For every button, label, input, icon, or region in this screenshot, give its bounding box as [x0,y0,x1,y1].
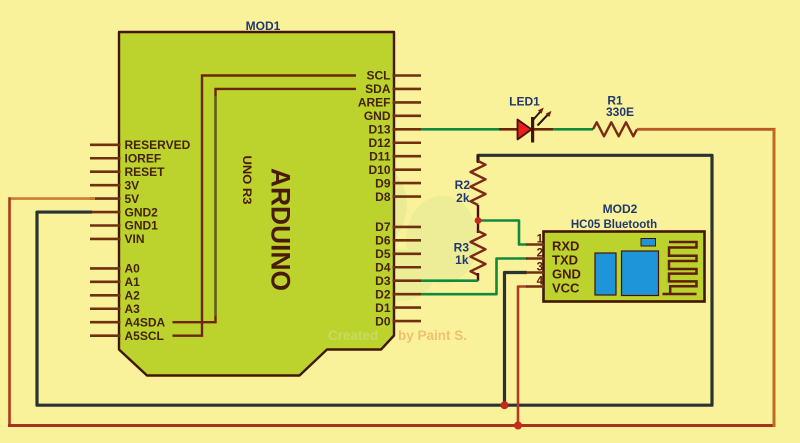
svg-text:A5SCL: A5SCL [125,329,164,343]
svg-text:A1: A1 [125,275,141,289]
wire 5V left vertical red [8,197,11,425]
svg-text:TXD: TXD [552,253,578,268]
svg-text:A2: A2 [125,289,141,303]
MOD2 chip large [622,251,659,296]
svg-text:VCC: VCC [552,281,580,296]
LED LED1 [518,108,554,143]
svg-text:RESET: RESET [125,165,166,179]
wire 5V orange horizontal [10,197,96,200]
wire D13 green to LED [421,128,499,131]
wire VCC branch red [518,287,527,426]
wire D3 to R3 green [421,279,478,282]
wire navy GND2 net [37,155,712,405]
svg-text:D3: D3 [375,274,391,288]
svg-text:D0: D0 [375,314,391,328]
svg-text:D11: D11 [369,149,391,163]
wire navy MOD2 GND branch [505,273,528,406]
watermark blobs [310,159,478,301]
svg-text:by Paint S.: by Paint S. [398,328,467,343]
junction VCC red [514,422,522,430]
right pin stubs [393,76,422,322]
svg-text:D8: D8 [375,190,391,204]
wire LED to R1 green [553,128,593,131]
wire bottom red [8,424,776,427]
MOD2 pin stubs [526,245,545,287]
svg-text:MOD2: MOD2 [603,202,638,216]
svg-text:HC05 Bluetooth: HC05 Bluetooth [571,219,657,231]
svg-text:D1: D1 [375,301,391,315]
svg-text:D13: D13 [368,123,390,137]
resistor R3 [471,221,486,281]
wire SCL to A5SCL internal [173,76,357,336]
svg-text:Created: Created [328,328,378,343]
svg-text:D4: D4 [375,261,391,275]
resistor R2 [471,155,486,220]
svg-text:D5: D5 [375,247,391,261]
wire SDA vertical olive tint [214,96,216,316]
svg-text:5V: 5V [125,192,140,206]
module MOD1 Arduino body [119,32,394,376]
svg-text:D10: D10 [368,163,390,177]
svg-text:3: 3 [537,262,543,274]
svg-text:GND2: GND2 [125,205,159,219]
svg-text:1k: 1k [455,253,469,267]
svg-text:4: 4 [537,276,544,288]
svg-text:UNO R3: UNO R3 [240,156,254,205]
wire R1 to right edge [637,128,776,131]
svg-text:GND: GND [552,267,581,282]
svg-text:ARDUINO: ARDUINO [266,168,296,291]
wire junction to RXD green [478,221,527,245]
junction GND navy [501,401,509,409]
wire SDA to A4SDA internal [173,89,357,322]
svg-text:330E: 330E [606,105,634,119]
svg-text:RXD: RXD [552,239,579,254]
module MOD2 HC05 box [544,232,705,302]
left pin stubs [90,145,121,336]
svg-text:SDA: SDA [365,82,391,96]
svg-text:R2: R2 [455,178,471,192]
svg-text:2k: 2k [456,191,470,205]
MOD2 antenna meander [669,242,697,294]
svg-text:1: 1 [537,234,544,246]
svg-text:GND1: GND1 [125,219,159,233]
svg-text:AREF: AREF [358,96,391,110]
resistor R1 [593,122,637,136]
junction R2 R3 RXD [475,217,482,224]
svg-text:A4SDA: A4SDA [125,315,166,329]
MOD2 pin numbers [537,234,544,288]
svg-text:A0: A0 [125,262,141,276]
wire right edge red vertical [773,129,776,427]
svg-text:3V: 3V [125,178,140,192]
svg-text:IOREF: IOREF [125,152,162,166]
svg-text:GND: GND [364,109,391,123]
wire LED anode lead [499,128,518,131]
svg-text:MOD1: MOD1 [246,19,281,33]
MOD2 pin labels [552,239,581,296]
MOD2 chip small [641,239,656,247]
svg-text:D9: D9 [375,176,391,190]
svg-text:SCL: SCL [367,69,391,83]
right pin labels [358,69,391,329]
wire D2 to TXD green [421,259,527,295]
svg-text:2: 2 [537,248,543,260]
MOD2 chip medium [595,253,616,295]
svg-text:D2: D2 [375,287,391,301]
svg-text:LED1: LED1 [509,95,540,109]
svg-text:A3: A3 [125,302,141,316]
svg-text:VIN: VIN [125,232,145,246]
svg-text:RESERVED: RESERVED [125,138,191,152]
left pin labels [125,138,191,343]
svg-text:D7: D7 [375,220,391,234]
svg-text:D6: D6 [375,234,391,248]
svg-text:D12: D12 [368,136,390,150]
